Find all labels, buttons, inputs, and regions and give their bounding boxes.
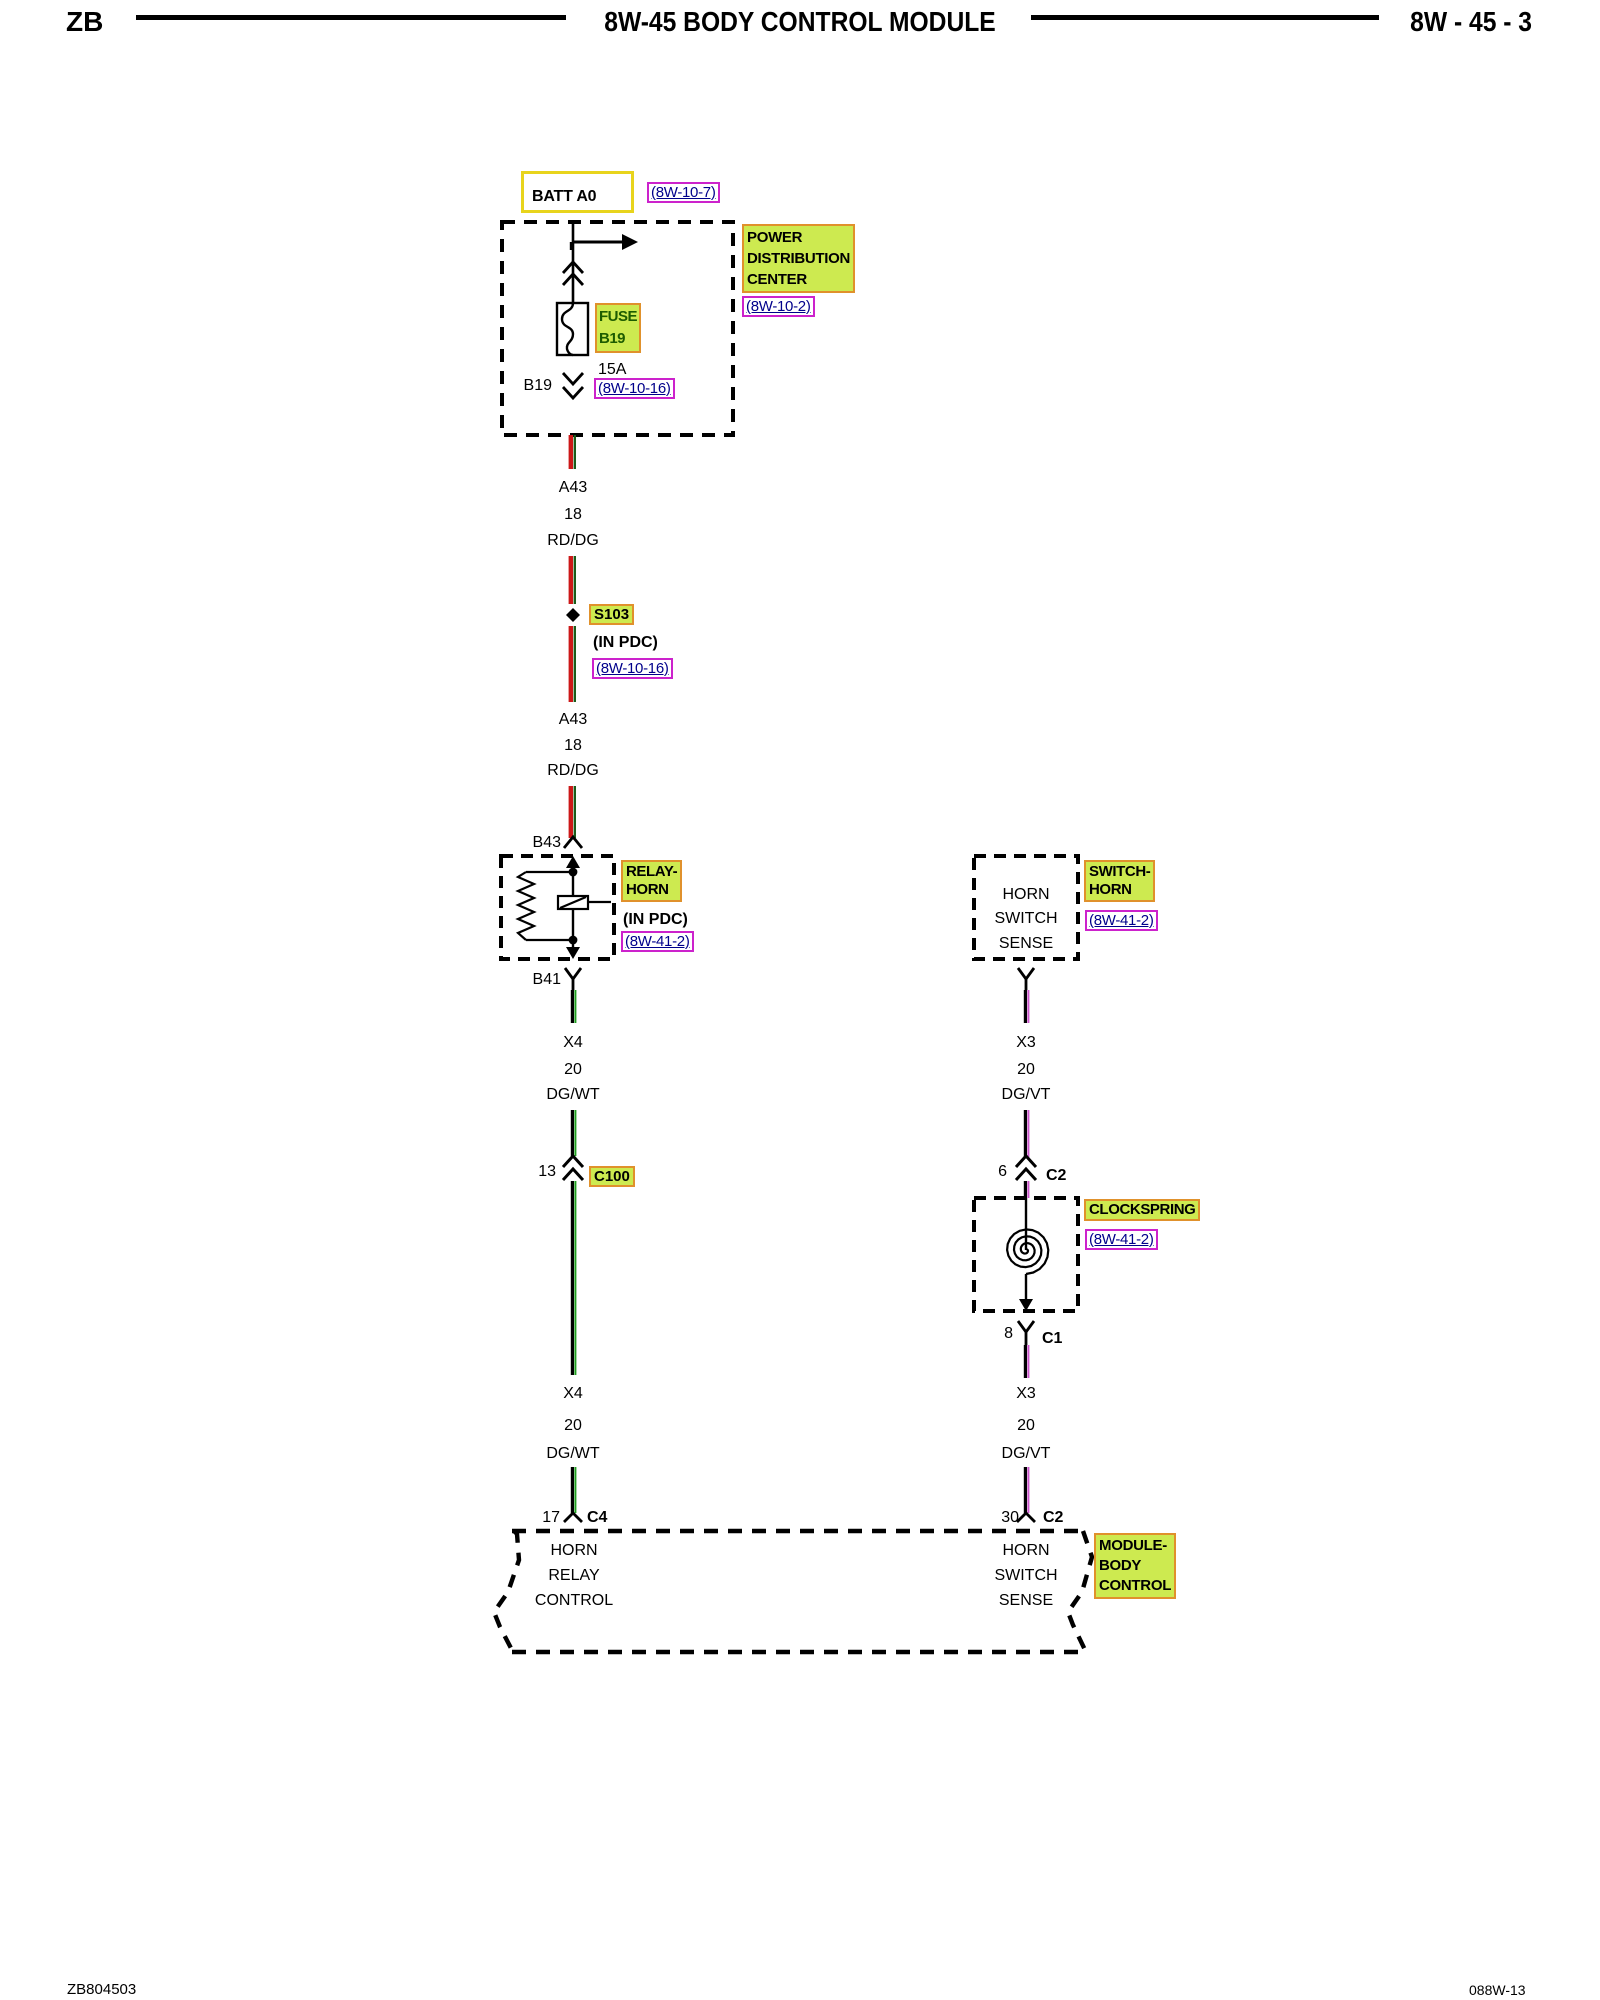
label FUSE B19: [595, 303, 641, 353]
label IN PDC upper: [593, 634, 658, 652]
connector chevrons B19 out: [563, 373, 583, 398]
wire DG/WT segment 1: [572, 990, 575, 1023]
connector label C4: [587, 1509, 607, 1527]
label SWITCH-HORN: [1084, 860, 1155, 902]
wire color RD/DG lower: [547, 762, 599, 780]
relay through wire: [572, 872, 574, 940]
pin label B41: [533, 971, 561, 989]
link 8W-41-2 relay: [621, 931, 694, 952]
relay junction dot bottom: [569, 936, 578, 945]
label POWER DISTRIBUTION CENTER: [742, 224, 855, 293]
relay pin arrow in: [566, 856, 580, 872]
wire color DG/VT lower: [1002, 1445, 1051, 1463]
header rule left: [136, 15, 566, 20]
wire gauge 20 lower right: [1017, 1417, 1035, 1435]
relay pin arrow out: [566, 940, 580, 959]
BCM pin name horn switch sense: [1002, 1542, 1049, 1560]
wire label X3 upper: [1016, 1034, 1036, 1052]
wire label X4 upper: [563, 1034, 583, 1052]
pin label B43: [533, 834, 561, 852]
connector C2 pin 6 chevrons: [1016, 1156, 1036, 1180]
label RELAY-HORN: [621, 860, 682, 902]
wire DG/VT segment 3: [1025, 1181, 1028, 1198]
relay coil resistor zigzag: [518, 872, 534, 940]
pin label 8: [1004, 1325, 1013, 1343]
wire RD/DG segment 2: [571, 556, 575, 604]
wire DG/VT segment 1: [1025, 990, 1028, 1023]
pin label 17: [542, 1509, 560, 1527]
horn switch sense text: [1002, 886, 1049, 904]
wire label X3 lower: [1016, 1385, 1036, 1403]
connector label C2 upper: [1046, 1167, 1066, 1185]
clockspring out wire and arrow: [1019, 1274, 1033, 1311]
wire DG/VT segment 2: [1025, 1110, 1028, 1158]
battery feed box BATT A0: [521, 171, 634, 213]
wire label A43 upper: [559, 479, 587, 497]
wire gauge 18 lower: [564, 737, 582, 755]
label C100: [589, 1166, 635, 1187]
relay coil branch wires: [526, 872, 573, 940]
connector chevrons in PDC feed: [563, 262, 583, 285]
clockspring dashed box: [974, 1198, 1078, 1311]
wire label A43 lower: [559, 711, 587, 729]
horn switch dashed box: [974, 856, 1078, 959]
header right page number: [1410, 6, 1532, 38]
footer left ZB804503: [67, 1981, 136, 1998]
connector B41 Y symbol: [565, 968, 581, 990]
wire gauge 20 upper right: [1017, 1061, 1035, 1079]
header rule right: [1031, 15, 1379, 20]
pin label 30: [1001, 1509, 1019, 1527]
wire gauge 20 lower left: [564, 1417, 582, 1435]
connector label C2 lower: [1043, 1509, 1063, 1527]
link 8W-41-2 clockspring: [1085, 1229, 1158, 1250]
wire DG/VT segment 5: [1025, 1467, 1028, 1513]
wire DG/VT segment 4: [1025, 1345, 1028, 1378]
footer right 088W-13: [1469, 1982, 1526, 1998]
connector C2 pin 30 half-arrow: [1017, 1513, 1035, 1522]
connector C4 pin 17 half-arrow: [564, 1513, 582, 1522]
BCM pin name horn relay control: [550, 1542, 597, 1560]
connector C100 chevrons: [563, 1156, 583, 1180]
wire branch arrow to other circuits: [571, 234, 638, 250]
fuse B19 symbol: [557, 303, 588, 355]
pin label B19: [524, 377, 552, 395]
wire RD/DG segment 3: [571, 626, 575, 702]
relay horn dashed box: [501, 856, 614, 959]
wire battery feed vertical: [572, 222, 575, 303]
body control module dashed outline: [494, 1531, 1092, 1652]
wire color RD/DG upper: [547, 532, 599, 550]
connector label C1: [1042, 1330, 1062, 1348]
pin label 6: [998, 1163, 1007, 1181]
clockspring feed wire: [1025, 1198, 1027, 1250]
link 8W-10-16 lower: [592, 658, 673, 679]
wire color DG/WT lower: [546, 1445, 599, 1463]
fuse rating 15A: [598, 361, 626, 379]
wire color DG/VT upper: [1002, 1086, 1051, 1104]
wire label X4 lower: [563, 1385, 583, 1403]
label CLOCKSPRING: [1084, 1199, 1200, 1221]
relay contact box: [558, 896, 611, 909]
header title: [604, 6, 996, 38]
link 8W-41-2 switch: [1085, 910, 1158, 931]
connector C1 pin 8 Y symbol: [1018, 1321, 1034, 1345]
link 8W-10-16 upper: [594, 378, 675, 399]
wire DG/WT segment 2: [572, 1110, 575, 1156]
wire color DG/WT upper: [546, 1086, 599, 1104]
connector B43 half-arrow: [564, 837, 582, 848]
splice S103 diamond: [566, 608, 580, 622]
label S103: [589, 604, 634, 625]
wire RD/DG segment 1: [571, 435, 575, 469]
connector horn switch Y symbol: [1018, 968, 1034, 990]
link 8W-10-7: [647, 182, 720, 203]
relay junction dot top: [569, 868, 578, 877]
wire DG/WT segment 3: [572, 1181, 575, 1375]
clockspring spiral: [1007, 1229, 1048, 1274]
wire gauge 18 upper: [564, 506, 582, 524]
pin label 13: [538, 1163, 556, 1181]
wire gauge 20 upper left: [564, 1061, 582, 1079]
label IN PDC relay: [623, 911, 688, 929]
wire RD/DG segment 4: [571, 786, 575, 838]
link 8W-10-2: [742, 296, 815, 317]
wire DG/WT segment 4: [572, 1467, 575, 1513]
power distribution center dashed box: [502, 222, 733, 435]
header left ZB: [66, 6, 103, 38]
label MODULE-BODY CONTROL: [1094, 1533, 1176, 1599]
